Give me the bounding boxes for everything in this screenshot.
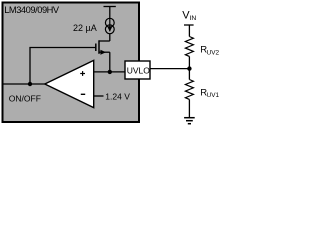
resistor RUV2 [185, 37, 193, 57]
svg-text:UV2: UV2 [207, 49, 220, 56]
op-amp U2 comparator [45, 60, 94, 107]
ground [184, 118, 195, 124]
node junction dot at transistor drain / plus input [108, 70, 112, 74]
VIN rail [184, 25, 194, 37]
svg-text:UVLO: UVLO [127, 65, 151, 75]
wire transistor drain down to UVLO node [109, 52, 111, 72]
wire node to RUV1 [188, 69, 190, 80]
wire UVLO output to divider node [150, 68, 190, 70]
label RUV1 [200, 88, 219, 100]
label RUV2 [200, 45, 219, 57]
transistor Q1 PMOS [96, 40, 110, 54]
svg-text:IN: IN [190, 15, 197, 22]
wire current source to transistor source [109, 34, 111, 41]
UVLO block [125, 61, 150, 79]
wire comparator plus input to UVLO [94, 71, 125, 73]
wire RUV1 to ground [188, 99, 190, 117]
svg-text:UV1: UV1 [207, 92, 220, 99]
label VIN [182, 9, 196, 22]
internal VCC rail [104, 7, 116, 19]
node junction dot divider node [187, 66, 191, 70]
wire comparator output to left edge (ON/OFF) [4, 83, 46, 85]
svg-text:LM3409/09HV: LM3409/09HV [4, 5, 60, 15]
current source I1 22 uA [105, 18, 114, 33]
svg-text:22 µA: 22 µA [73, 23, 97, 33]
wire 1.24 V reference stub to minus input [94, 95, 104, 97]
resistor RUV1 [185, 80, 193, 100]
svg-text:1.24 V: 1.24 V [105, 92, 130, 102]
IC block U1 LM3409/09HV [3, 3, 140, 123]
wire RUV2 to node [188, 56, 190, 68]
node junction dot on ON/OFF wire [28, 82, 32, 86]
wire gate L-shape from ON/OFF node [30, 48, 96, 85]
svg-text:ON/OFF: ON/OFF [9, 94, 41, 104]
